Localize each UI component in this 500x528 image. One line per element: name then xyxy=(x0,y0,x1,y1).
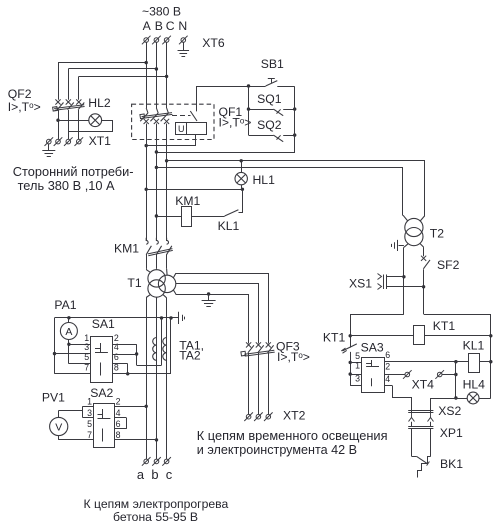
svg-text:8: 8 xyxy=(116,430,121,440)
svg-text:HL4: HL4 xyxy=(463,378,486,392)
coil KM1 xyxy=(156,207,191,227)
svg-text:К цепям электропрогрева: К цепям электропрогрева xyxy=(84,497,229,511)
ground at T1 secondary xyxy=(202,294,216,307)
wire SA2 pin4 pin6 bracket xyxy=(114,418,126,429)
wire SA3 pin5 xyxy=(350,362,361,364)
wire HL2 return xyxy=(69,121,113,132)
label QF2 xyxy=(8,87,32,101)
pushbutton SB1 xyxy=(197,78,295,87)
text 42V circuits xyxy=(197,428,388,457)
svg-text:4: 4 xyxy=(114,342,119,352)
wire QF2 pole2 lower xyxy=(68,110,70,139)
svg-text:KM1: KM1 xyxy=(175,194,200,208)
svg-text:SA3: SA3 xyxy=(361,341,384,355)
svg-text:C: C xyxy=(166,19,175,33)
svg-text:5: 5 xyxy=(355,351,360,361)
wire SA3 pin1 xyxy=(350,374,361,376)
svg-text:c: c xyxy=(166,467,173,482)
label XT4 xyxy=(412,378,435,392)
svg-text:~380 В: ~380 В xyxy=(142,5,181,19)
net ~380V label xyxy=(142,5,181,19)
svg-text:N: N xyxy=(178,19,187,33)
label KL1 coil xyxy=(463,339,485,353)
label KT1 coil xyxy=(433,319,456,333)
current transformer TA2 xyxy=(163,318,171,374)
undervoltage release U of QF1 xyxy=(145,86,207,147)
wire SA3 pin6 to KL1 xyxy=(384,360,458,363)
svg-text:SQ2: SQ2 xyxy=(257,118,282,132)
svg-text:KT1: KT1 xyxy=(433,319,456,333)
sensor BK1 xyxy=(412,457,431,478)
wire QF2 pole1 lower xyxy=(56,110,59,139)
wire T1 secondary lower xyxy=(173,290,248,344)
wire SA1 pin6 pin8 to TA2 xyxy=(113,364,171,376)
pin numbers SA1 left xyxy=(84,333,89,373)
label XT2 xyxy=(283,409,306,423)
switch SA1 box xyxy=(91,337,113,383)
svg-text:4: 4 xyxy=(385,374,390,384)
svg-text:3: 3 xyxy=(84,342,89,352)
limit switch SQ1 xyxy=(247,107,297,115)
svg-text:QF2: QF2 xyxy=(8,87,32,101)
label QF3 xyxy=(276,340,300,354)
lamp HL1 xyxy=(235,161,247,190)
wire T1 secondary upper xyxy=(173,273,268,343)
terminal XT1-2 xyxy=(54,137,63,146)
coil KL1 xyxy=(456,354,491,373)
svg-text:SF2: SF2 xyxy=(437,258,460,272)
svg-text:XT6: XT6 xyxy=(202,36,225,50)
terminal XT6 N xyxy=(179,36,188,45)
pin numbers SA3 right xyxy=(385,350,390,384)
wire SA1 pin2 pin4 to TA1 xyxy=(113,344,162,365)
svg-text:SB1: SB1 xyxy=(261,57,284,71)
wire branch C to QF2 xyxy=(79,75,169,100)
wire bus A middle xyxy=(145,124,148,241)
svg-text:SA2: SA2 xyxy=(90,386,113,400)
svg-text:TA2: TA2 xyxy=(179,349,201,363)
label SA3 xyxy=(361,341,384,355)
svg-text:К цепям временного освещения: К цепям временного освещения xyxy=(197,428,388,443)
ground left of T2 xyxy=(392,240,404,251)
text electroprogrev xyxy=(84,497,229,524)
connector XS2 xyxy=(408,411,433,422)
wire SA3 pin4 to XS2 xyxy=(384,386,412,413)
wire bus B middle xyxy=(155,124,158,241)
lamp HL2 xyxy=(58,114,102,127)
wire QF2 pole3 lower xyxy=(78,110,80,139)
label QF3 I>,T0> xyxy=(277,350,310,364)
ammeter PA1 xyxy=(60,318,90,364)
svg-text:XS2: XS2 xyxy=(438,404,461,418)
dashed enclosure QF1 xyxy=(132,104,214,139)
terminal XT2-2 xyxy=(254,412,263,421)
svg-text:Сторонний потреби-: Сторонний потреби- xyxy=(13,164,134,179)
label QF2 I>,T0> xyxy=(8,100,41,114)
svg-text:бетона 55-95 В: бетона 55-95 В xyxy=(113,510,198,524)
wire node right of KT1 xyxy=(424,314,493,398)
svg-text:1: 1 xyxy=(87,397,92,407)
wire bus C top xyxy=(166,43,168,109)
terminal c xyxy=(162,457,171,466)
svg-text:SA1: SA1 xyxy=(92,317,115,331)
svg-text:3: 3 xyxy=(355,373,360,383)
wire SA1 pin3 xyxy=(55,353,91,355)
terminal XT1-3 xyxy=(64,137,73,146)
wire XP1 down left xyxy=(411,429,413,457)
label KL1 contact xyxy=(218,219,240,233)
label XS2 xyxy=(438,404,461,418)
wire line B to T2 xyxy=(157,168,408,221)
svg-text:4: 4 xyxy=(116,408,121,418)
wire KL1 node vertical xyxy=(454,362,457,400)
svg-text:тель 380 В ,10 А: тель 380 В ,10 А xyxy=(18,178,115,193)
wire bus C middle xyxy=(165,124,168,241)
label HL1 xyxy=(253,173,276,187)
terminal a xyxy=(142,457,151,466)
svg-text:XP1: XP1 xyxy=(440,426,463,440)
wire SA3 pin3 xyxy=(350,385,361,387)
wire SB1 chain right vertical to bus B xyxy=(155,87,295,154)
svg-text:8: 8 xyxy=(114,363,119,373)
label KT1 contact xyxy=(323,331,346,345)
svg-text:6: 6 xyxy=(116,419,121,429)
phase labels A B C N xyxy=(143,19,188,33)
wire SA3 pin2 to XT4 xyxy=(384,374,405,376)
svg-text:и электроинструмента 42 В: и электроинструмента 42 В xyxy=(197,443,357,457)
wire XS2 right pin up xyxy=(430,398,432,413)
svg-text:b: b xyxy=(151,467,158,482)
label SQ2 xyxy=(257,118,282,132)
wire SB1 chain left vertical xyxy=(248,86,250,135)
circuit breaker QF3 xyxy=(241,342,275,414)
wire SA2 pin8 to line b xyxy=(114,439,156,441)
label T2 xyxy=(430,227,444,241)
ground at N xyxy=(178,43,190,57)
svg-text:I>,Tо>: I>,Tо> xyxy=(277,350,310,364)
voltmeter PV1 xyxy=(50,406,94,440)
wire SA2 pin2 to line a xyxy=(114,406,146,408)
switch SA3 box xyxy=(362,358,385,393)
svg-text:U: U xyxy=(178,124,185,134)
contact KL1 xyxy=(192,190,243,217)
svg-text:V: V xyxy=(55,422,62,434)
svg-text:KM1: KM1 xyxy=(114,241,139,255)
connector XS1 xyxy=(378,274,424,290)
current transformer TA1 xyxy=(153,318,162,365)
wire XT4-2 to node xyxy=(442,373,457,376)
svg-text:I>,Tо>: I>,Tо> xyxy=(8,100,41,114)
svg-text:XS1: XS1 xyxy=(349,277,372,291)
circuit breaker QF1 poles xyxy=(140,108,173,140)
wire bus B top xyxy=(156,43,158,109)
svg-text:I>,Tо>: I>,Tо> xyxy=(219,116,252,130)
label XP1 xyxy=(440,426,463,440)
svg-text:HL1: HL1 xyxy=(253,173,276,187)
svg-text:KL1: KL1 xyxy=(218,219,240,233)
svg-text:6: 6 xyxy=(114,352,119,362)
wire node left of KT1 xyxy=(349,314,404,348)
label XS1 xyxy=(349,277,372,291)
terminal XT2-3 xyxy=(264,412,273,421)
label QF1 I>,T0> xyxy=(219,116,252,130)
svg-text:PV1: PV1 xyxy=(42,391,65,405)
terminal XT4-1 xyxy=(403,370,412,379)
terminal XT1-4 xyxy=(75,137,84,146)
label XT1 xyxy=(89,134,112,148)
connector XP1 xyxy=(408,422,433,429)
label SA2 xyxy=(90,386,113,400)
wire T1 secondary middle xyxy=(176,284,259,344)
label SF2 xyxy=(437,258,460,272)
switch SA2 box xyxy=(94,404,115,448)
label SQ1 xyxy=(257,92,282,106)
svg-text:2: 2 xyxy=(385,362,390,372)
wire branch B to QF2 xyxy=(68,67,158,100)
limit switch SQ2 xyxy=(249,133,297,141)
wire line a lower xyxy=(145,298,148,460)
svg-text:HL2: HL2 xyxy=(88,96,111,110)
svg-text:5: 5 xyxy=(87,419,92,429)
terminal b xyxy=(152,457,161,466)
svg-text:5: 5 xyxy=(84,352,89,362)
terminal XT4-2 xyxy=(435,370,444,379)
label KM1 coil xyxy=(175,194,200,208)
label PA1 xyxy=(54,298,76,312)
label SB1 xyxy=(261,57,284,71)
ground right-facing at PA1 line xyxy=(179,312,185,324)
coil KT1 xyxy=(350,326,491,345)
wire line C to T2 xyxy=(167,159,425,221)
transformer T2 xyxy=(405,218,423,245)
svg-text:XT1: XT1 xyxy=(89,134,112,148)
contactor KM1 main contacts xyxy=(146,238,173,269)
label QF1 xyxy=(219,105,243,119)
svg-text:a: a xyxy=(137,467,145,482)
svg-text:3: 3 xyxy=(87,408,92,418)
label T1 xyxy=(127,276,141,290)
label HL4 xyxy=(463,378,486,392)
label TA1 TA2 xyxy=(179,339,204,363)
svg-text:PA1: PA1 xyxy=(54,298,76,312)
svg-text:XT4: XT4 xyxy=(412,378,435,392)
pin numbers SA2 right xyxy=(116,397,121,441)
label BK1 xyxy=(440,457,463,471)
wire PA1 loop xyxy=(53,316,179,374)
svg-text:KL1: KL1 xyxy=(463,339,485,353)
labels a b c xyxy=(137,467,173,482)
wire branch A to QF2 xyxy=(58,61,148,100)
label KM1 contacts xyxy=(114,241,139,255)
svg-text:7: 7 xyxy=(84,363,89,373)
wire line c lower xyxy=(166,298,168,459)
breaker SF2 xyxy=(420,244,430,314)
svg-text:XT2: XT2 xyxy=(283,409,306,423)
label SA1 xyxy=(92,317,115,331)
label HL2 xyxy=(88,96,111,110)
label PV1 xyxy=(42,391,65,405)
terminal XT6 B xyxy=(152,36,161,45)
wire line A to HL1 return xyxy=(146,188,244,191)
svg-text:A: A xyxy=(143,19,152,33)
svg-text:A: A xyxy=(65,326,72,338)
text Storonniy potrebitel xyxy=(13,164,134,193)
wire line b lower xyxy=(155,297,158,459)
terminal XT6 C xyxy=(162,36,171,45)
pin numbers SA1 right xyxy=(114,333,119,373)
svg-text:KT1: KT1 xyxy=(323,331,346,345)
wire T2 secondary left xyxy=(402,244,408,314)
terminal XT1-1 xyxy=(45,137,54,146)
svg-text:BK1: BK1 xyxy=(440,457,463,471)
svg-text:B: B xyxy=(155,19,163,33)
wire bus A top xyxy=(146,43,148,109)
ground at XT1 xyxy=(42,144,55,157)
terminal XT6 A xyxy=(142,36,151,45)
svg-text:1: 1 xyxy=(355,361,360,371)
svg-text:SQ1: SQ1 xyxy=(257,92,282,106)
svg-text:T2: T2 xyxy=(430,227,444,241)
pin numbers SA2 left xyxy=(87,397,92,441)
svg-text:7: 7 xyxy=(87,430,92,440)
lamp HL4 xyxy=(431,392,491,404)
circuit breaker QF2 xyxy=(53,99,85,111)
svg-text:2: 2 xyxy=(116,397,121,407)
terminal XT2-1 xyxy=(244,412,253,421)
svg-text:6: 6 xyxy=(385,350,390,360)
contact KT1 with delay xyxy=(341,344,357,386)
transformer T1 xyxy=(146,269,176,299)
pin numbers SA3 left xyxy=(355,351,360,384)
svg-text:T1: T1 xyxy=(127,276,141,290)
label XT6 xyxy=(202,36,225,50)
wire XP1 down right xyxy=(430,429,432,457)
